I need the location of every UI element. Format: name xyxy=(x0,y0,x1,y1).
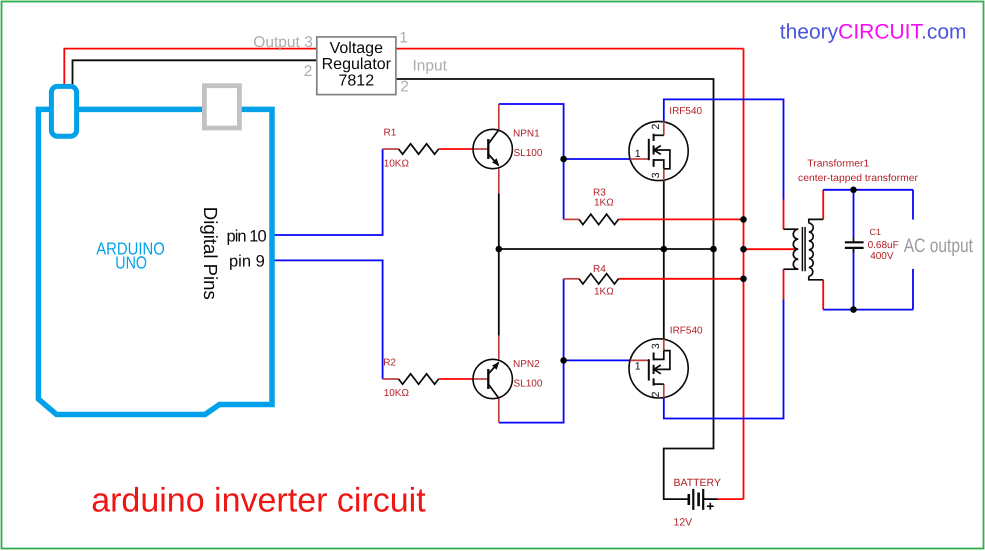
transformer T1 core xyxy=(802,227,805,271)
wire regulator pin2 left (black, to USB) xyxy=(73,60,317,85)
svg-text:3: 3 xyxy=(304,34,313,51)
junction node C1 top xyxy=(850,187,857,194)
wire ground rail (black) xyxy=(499,248,714,250)
wire MOSFET sources column (black) xyxy=(663,181,665,339)
junction node center tap on +12V rail xyxy=(740,246,747,253)
wire transformer primary bottom stub (red) xyxy=(783,269,785,299)
svg-text:SL100: SL100 xyxy=(514,378,543,389)
MOSFET Q1 IRF540 xyxy=(629,121,688,180)
svg-text:1: 1 xyxy=(399,29,408,46)
svg-text:pin 9: pin 9 xyxy=(229,252,265,270)
svg-text:10KΩ: 10KΩ xyxy=(384,388,410,399)
voltage regulator U1 7812 box xyxy=(317,37,396,95)
svg-text:NPN1: NPN1 xyxy=(513,129,540,140)
wire battery positive (red) xyxy=(718,498,744,500)
capacitor C1 xyxy=(845,238,864,253)
svg-text:0.68uF: 0.68uF xyxy=(868,240,899,251)
svg-text:R1: R1 xyxy=(384,128,397,139)
wire secondary top to AC output (blue) xyxy=(823,189,913,191)
resistor R2 xyxy=(383,374,439,384)
svg-text:2: 2 xyxy=(304,63,313,80)
wire R4 to +12V rail (red) xyxy=(618,278,743,280)
wire battery positive stub (black) xyxy=(703,498,717,500)
MOSFET Q2 IRF540 xyxy=(629,339,688,398)
svg-text:pin 10: pin 10 xyxy=(227,227,267,245)
svg-text:R4: R4 xyxy=(593,264,606,275)
wire AC output terminal top (blue) xyxy=(912,190,914,220)
wire NPN1 collector to gate node A (blue) xyxy=(499,104,564,219)
svg-text:BATTERY: BATTERY xyxy=(674,477,721,489)
battery BT1 xyxy=(689,489,714,510)
wire secondary bottom to AC output (blue) xyxy=(823,309,913,311)
wire C1 top lead (blue) xyxy=(853,190,855,238)
wire pin10 (blue) xyxy=(274,149,383,235)
wire secondary bottom stub (red) xyxy=(822,280,824,310)
wire transformer primary top stub (red) xyxy=(783,200,785,230)
Arduino power jack xyxy=(204,86,239,128)
svg-text:SL100: SL100 xyxy=(514,148,543,159)
wire gate node B to Q2 pin1 (blue) xyxy=(564,359,631,361)
svg-text:Regulator: Regulator xyxy=(322,56,392,73)
svg-text:10KΩ: 10KΩ xyxy=(384,158,410,169)
svg-text:400V: 400V xyxy=(870,251,894,262)
svg-text:1KΩ: 1KΩ xyxy=(594,287,614,298)
svg-text:1: 1 xyxy=(635,148,641,160)
wire gate node A to Q1 pin1 (blue) xyxy=(564,158,631,160)
svg-text:center-tapped transformer: center-tapped transformer xyxy=(798,173,919,184)
svg-text:1KΩ: 1KΩ xyxy=(594,198,614,209)
wire NPN emitters vertical (black) xyxy=(498,193,500,335)
resistor R3 xyxy=(564,214,619,224)
svg-text:AC output: AC output xyxy=(904,235,974,257)
transistor NPN1 SL100 xyxy=(473,104,512,193)
svg-text:2: 2 xyxy=(400,79,409,96)
resistor R1 xyxy=(383,144,439,154)
wire R3 to +12V rail (red) xyxy=(618,218,743,220)
wire C1 bottom lead (blue) xyxy=(853,248,855,310)
junction node gate B xyxy=(560,357,567,364)
wire regulator output right to +12V rail (red) xyxy=(396,48,744,50)
wire center tap to +12V rail (red) xyxy=(744,248,798,250)
junction node R3 on +12V rail xyxy=(740,216,747,223)
junction node gate A xyxy=(560,156,567,163)
wire R1 to NPN1 base (red) xyxy=(439,148,474,150)
svg-text:Input: Input xyxy=(413,58,448,75)
svg-text:C1: C1 xyxy=(870,227,882,237)
transformer T1 secondary winding xyxy=(809,219,823,279)
wire regulator output left (red, to USB) xyxy=(64,49,316,85)
wire NPN2 collector to gate node B (blue) xyxy=(499,279,564,423)
junction node battery black on rail xyxy=(710,246,717,253)
junction node rail left xyxy=(496,246,503,253)
Arduino UNO board outline xyxy=(38,109,272,414)
svg-text:UNO: UNO xyxy=(115,253,147,273)
svg-text:7812: 7812 xyxy=(339,72,375,89)
svg-text:1: 1 xyxy=(635,360,641,372)
wire R2 to NPN2 base (red) xyxy=(439,378,474,380)
wire secondary top stub (red) xyxy=(822,190,824,220)
svg-text:2: 2 xyxy=(650,124,662,130)
wire Q2 drain to transformer bottom (blue) xyxy=(664,300,784,419)
junction node sources on rail xyxy=(661,246,668,253)
Arduino USB connector xyxy=(51,86,76,136)
svg-text:IRF540: IRF540 xyxy=(669,106,702,117)
svg-text:Digital Pins: Digital Pins xyxy=(199,207,220,300)
svg-text:NPN2: NPN2 xyxy=(513,359,540,370)
junction node C1 bottom xyxy=(850,306,857,313)
wire regulator input to battery negative (black) xyxy=(396,79,714,499)
svg-text:3: 3 xyxy=(650,172,662,178)
wire +12V vertical rail (red) xyxy=(743,49,745,500)
wire AC output terminal bottom (blue) xyxy=(912,269,914,310)
svg-text:theoryCIRCUIT.com: theoryCIRCUIT.com xyxy=(780,20,967,43)
svg-text:IRF540: IRF540 xyxy=(670,326,703,337)
svg-text:12V: 12V xyxy=(674,516,693,528)
svg-text:Voltage: Voltage xyxy=(330,40,383,57)
svg-text:Output: Output xyxy=(253,34,300,51)
wire pin9 (blue) xyxy=(274,260,383,379)
junction node R4 on +12V rail xyxy=(740,276,747,283)
svg-text:R2: R2 xyxy=(383,357,396,368)
svg-text:Transformer1: Transformer1 xyxy=(807,158,869,169)
transformer T1 primary winding xyxy=(784,229,799,269)
transistor NPN2 SL100 xyxy=(473,336,512,423)
svg-text:arduino inverter circuit: arduino inverter circuit xyxy=(91,481,426,519)
svg-text:3: 3 xyxy=(650,343,662,349)
resistor R4 xyxy=(564,274,619,284)
wire Q1 drain to transformer top (blue) xyxy=(664,99,784,199)
svg-text:2: 2 xyxy=(650,391,662,397)
